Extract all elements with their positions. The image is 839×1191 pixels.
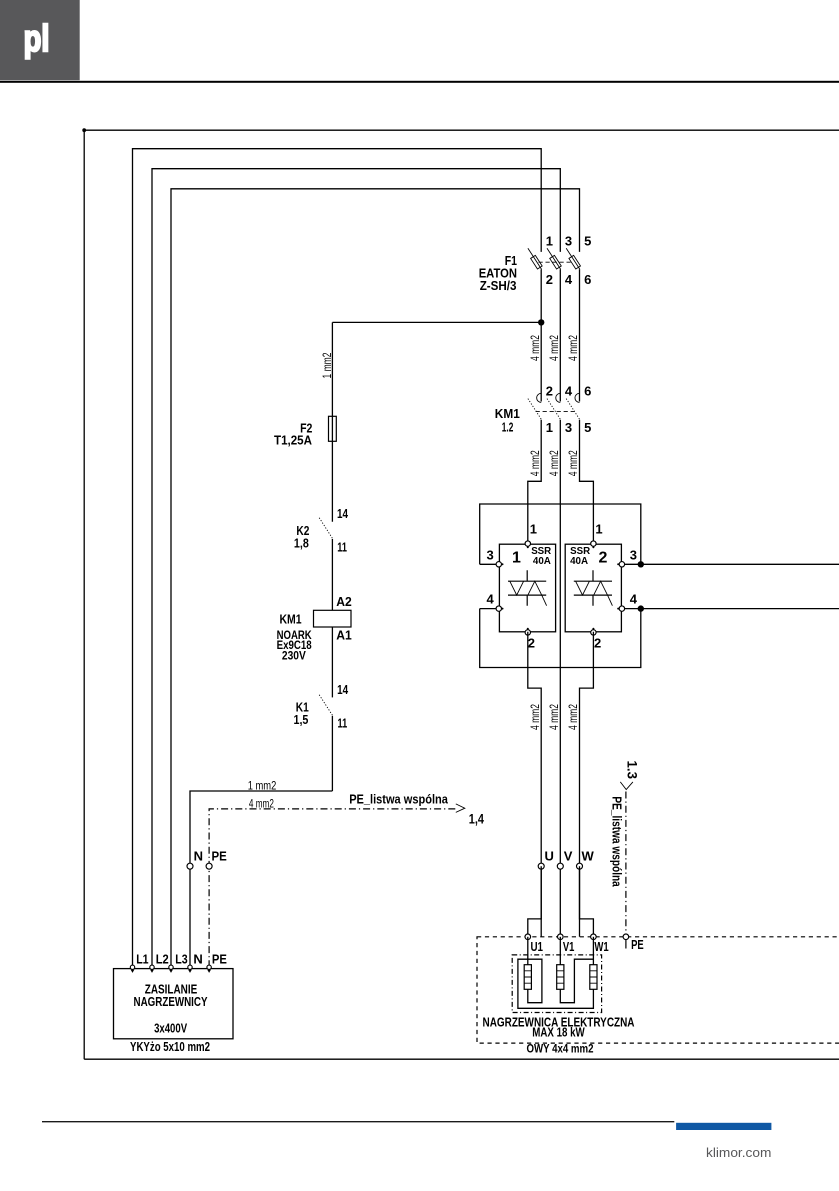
svg-text:4 mm2: 4 mm2 <box>528 335 542 361</box>
wire U terminal to U1 <box>528 866 541 937</box>
wire K2 to coil <box>331 539 333 610</box>
svg-text:NAGRZEWNICY: NAGRZEWNICY <box>134 994 208 1009</box>
svg-text:2: 2 <box>546 272 553 287</box>
arrow head PE up to 1.3 <box>620 782 633 790</box>
wire element R2 loop link <box>560 959 593 1003</box>
svg-text:KM1: KM1 <box>495 406 520 421</box>
wire output gate line 3 to right <box>641 563 839 565</box>
svg-text:L2: L2 <box>156 952 169 967</box>
terminal PE heater circle <box>623 934 629 940</box>
terminal PE circle <box>206 863 212 869</box>
SSR2 pin 4 terminal <box>619 606 624 611</box>
svg-text:2: 2 <box>546 383 553 398</box>
wire KM1 pole1 down <box>528 420 541 544</box>
SSR 1 body <box>499 544 555 632</box>
svg-text:4 mm2: 4 mm2 <box>547 704 561 730</box>
wire PE dash-dot to listwa <box>209 809 457 967</box>
wire L2 F1 to KM1 <box>559 269 561 401</box>
svg-text:klimor.com: klimor.com <box>706 1145 771 1160</box>
svg-text:4 mm2: 4 mm2 <box>249 796 274 810</box>
svg-text:3: 3 <box>565 234 572 249</box>
svg-text:A1: A1 <box>336 628 352 643</box>
svg-text:1.2: 1.2 <box>502 420 514 435</box>
svg-text:11: 11 <box>337 539 347 554</box>
heater enclosure dotted box <box>477 937 839 1043</box>
wire KM1 pole3 down (phase V straight) <box>559 420 561 937</box>
svg-text:6: 6 <box>584 383 591 398</box>
contact K1 <box>319 695 333 716</box>
svg-text:4: 4 <box>630 591 638 606</box>
svg-text:N: N <box>194 849 203 864</box>
svg-text:4 mm2: 4 mm2 <box>528 450 542 476</box>
wire SSR1 pin4 stub <box>480 608 500 610</box>
svg-text:3: 3 <box>630 548 637 563</box>
svg-text:1: 1 <box>512 550 521 567</box>
svg-text:3x400V: 3x400V <box>154 1020 187 1035</box>
svg-text:5: 5 <box>584 234 591 249</box>
header language tab 'pl' <box>0 0 80 80</box>
svg-text:4 mm2: 4 mm2 <box>528 704 542 730</box>
wire K1 to N <box>331 716 333 791</box>
svg-text:5: 5 <box>584 420 591 435</box>
wire L3 F1 to KM1 <box>579 269 581 401</box>
svg-text:MAX 18 kW: MAX 18 kW <box>532 1026 585 1040</box>
svg-text:4: 4 <box>565 383 573 398</box>
junction node gate 4 <box>638 605 644 611</box>
svg-text:4 mm2: 4 mm2 <box>566 335 580 361</box>
svg-text:N: N <box>193 952 202 967</box>
wire W terminal to W1 <box>580 866 594 937</box>
contactor KM1 pole 6-5 <box>566 393 580 420</box>
wire coil to K1 <box>331 627 333 697</box>
F1 mechanical link dashed <box>539 261 573 263</box>
terminal N circle <box>187 863 193 869</box>
terminal L3 on box <box>169 965 173 969</box>
svg-text:pl: pl <box>24 18 50 59</box>
wire L3 feeder <box>171 189 580 968</box>
wire SSR top rail <box>480 504 641 564</box>
svg-text:4 mm2: 4 mm2 <box>547 335 561 361</box>
svg-text:3: 3 <box>565 420 572 435</box>
svg-text:40A: 40A <box>570 556 588 567</box>
SSR2 pin 3 terminal <box>619 562 624 567</box>
svg-text:4: 4 <box>487 591 495 606</box>
heating element R2 <box>557 965 564 990</box>
svg-text:2: 2 <box>594 635 601 650</box>
svg-text:1: 1 <box>546 420 553 435</box>
triac symbol SSR1 <box>508 570 547 605</box>
terminal W circle <box>577 863 583 869</box>
SSR1 pin 3 terminal <box>496 562 501 567</box>
svg-text:4 mm2: 4 mm2 <box>566 450 580 476</box>
svg-text:1,4: 1,4 <box>469 811 484 827</box>
wire control tap horizontal <box>332 321 541 323</box>
svg-text:4 mm2: 4 mm2 <box>547 450 561 476</box>
fuse-switch F1 pole 1-2 <box>528 248 542 269</box>
heating element R1 <box>524 965 531 990</box>
SSR 2 body <box>565 544 621 632</box>
terminal L2 on box <box>150 965 154 969</box>
svg-text:1 mm2: 1 mm2 <box>248 778 277 792</box>
wire U output from SSR1 pin2 <box>528 632 541 937</box>
header rule <box>0 81 839 83</box>
supply box ZASILANIE NAGRZEWNICY <box>114 969 234 1039</box>
svg-text:3: 3 <box>487 548 494 563</box>
svg-text:11: 11 <box>338 716 348 731</box>
terminal U1 circle <box>525 934 531 940</box>
fuse-switch F1 pole 5-6 <box>566 248 580 269</box>
svg-text:KM1: KM1 <box>280 611 302 626</box>
svg-text:14: 14 <box>337 682 349 697</box>
KM1 mechanical link dashed <box>536 410 575 412</box>
svg-text:PE: PE <box>631 937 644 952</box>
wire L2 feeder <box>152 169 560 968</box>
svg-text:PE: PE <box>212 849 228 864</box>
wire SSR2 pin3 stub <box>621 563 641 565</box>
wire KM1 pole5 down <box>580 420 594 544</box>
wire control branch upper <box>331 322 333 521</box>
wire PE heater stub <box>625 940 627 949</box>
footer rule <box>42 1121 674 1123</box>
svg-text:U1: U1 <box>531 939 544 954</box>
terminal W1 circle <box>591 934 597 940</box>
wire L1 F1 to KM1 <box>540 269 542 401</box>
svg-text:4: 4 <box>565 272 573 287</box>
svg-text:1: 1 <box>530 521 537 536</box>
svg-text:1.3: 1.3 <box>624 761 639 780</box>
SSR2 pin 1 terminal <box>591 541 596 546</box>
svg-text:V1: V1 <box>563 939 575 954</box>
contactor KM1 pole 4-3 <box>547 393 561 420</box>
drawing frame border <box>82 128 839 1059</box>
wire PE listwa right vertical dash-dot <box>625 792 627 937</box>
fuse F2 <box>329 416 337 441</box>
svg-text:A2: A2 <box>336 594 352 609</box>
terminal U circle <box>538 863 544 869</box>
svg-text:2: 2 <box>528 635 535 650</box>
svg-text:PE_listwa wspólna: PE_listwa wspólna <box>610 796 624 887</box>
svg-text:14: 14 <box>337 506 349 521</box>
svg-text:W: W <box>582 849 595 864</box>
wire L1 feeder <box>133 149 542 968</box>
junction node gate 3 <box>638 561 644 567</box>
heating element R3 <box>590 965 597 990</box>
svg-text:YKYżo 5x10 mm2: YKYżo 5x10 mm2 <box>130 1040 210 1054</box>
wire SSR1 pin3 stub <box>480 563 500 565</box>
svg-text:1: 1 <box>595 521 602 536</box>
svg-text:OWY 4x4 mm2: OWY 4x4 mm2 <box>527 1042 594 1056</box>
svg-text:1: 1 <box>546 234 553 249</box>
svg-text:230V: 230V <box>282 649 306 663</box>
wire element R1 loop link <box>518 959 594 1008</box>
terminal N on box <box>188 965 192 969</box>
svg-text:L3: L3 <box>175 952 187 967</box>
SSR1 pin 2 terminal <box>525 630 530 635</box>
SSR1 pin 1 terminal <box>525 541 530 546</box>
svg-text:L1: L1 <box>136 952 148 967</box>
svg-text:T1,25A: T1,25A <box>274 433 313 448</box>
wire W1 to element R3 <box>592 937 594 965</box>
svg-text:2: 2 <box>598 550 607 567</box>
svg-text:PE: PE <box>212 952 227 967</box>
junction node control tap <box>538 319 544 325</box>
svg-text:PE_listwa wspólna: PE_listwa wspólna <box>349 792 449 806</box>
svg-text:1,5: 1,5 <box>294 712 309 727</box>
wire SSR bottom rail <box>480 609 641 668</box>
arrow head PE to 1,4 <box>456 804 465 813</box>
contactor KM1 pole 2-1 <box>528 393 542 420</box>
svg-text:V: V <box>564 849 573 864</box>
contact K2 <box>319 518 333 539</box>
wire output gate line 4 to right <box>641 608 839 610</box>
svg-text:1 mm2: 1 mm2 <box>320 352 334 378</box>
SSR1 pin 4 terminal <box>496 606 501 611</box>
terminal PE on box <box>207 965 211 969</box>
SSR2 pin 2 terminal <box>591 630 596 635</box>
wire V1 to element R2 <box>559 937 561 965</box>
terminal V1 circle <box>558 934 564 940</box>
svg-text:6: 6 <box>584 272 591 287</box>
wire W output from SSR2 pin2 <box>580 632 594 937</box>
svg-text:W1: W1 <box>594 939 608 954</box>
wire N feeder <box>190 791 332 967</box>
svg-text:40A: 40A <box>533 556 551 567</box>
coil KM1 <box>314 610 352 627</box>
triac symbol SSR2 <box>574 570 613 605</box>
terminal L1 on box <box>130 965 134 969</box>
wire SSR2 pin4 stub <box>621 608 641 610</box>
svg-text:U: U <box>545 849 554 864</box>
heater element group dash-dot box <box>512 955 601 1013</box>
footer blue bar <box>676 1123 771 1130</box>
fuse-switch F1 pole 3-4 <box>547 248 561 269</box>
svg-text:1,8: 1,8 <box>294 536 309 551</box>
terminal V circle <box>557 863 563 869</box>
svg-text:4 mm2: 4 mm2 <box>566 704 580 730</box>
wire U1 to element R1 <box>527 937 529 965</box>
svg-text:Z-SH/3: Z-SH/3 <box>480 278 517 293</box>
